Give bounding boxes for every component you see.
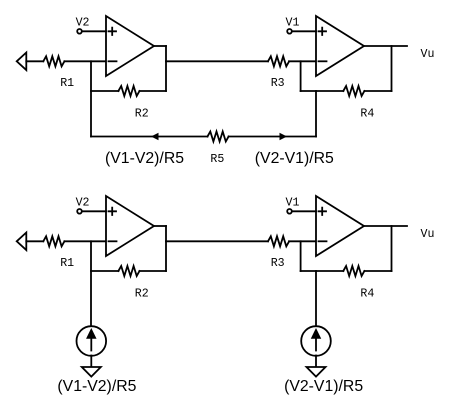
current direction arrowhead (right): [280, 133, 288, 141]
wire (R5 right segment): [229, 136, 316, 138]
wire: [26, 60, 43, 62]
op-amp U1b: [106, 196, 154, 256]
wire (R2 feedback right lead): [140, 270, 167, 272]
current source I2: [301, 326, 331, 356]
wire (I2 to arrow terminal): [315, 356, 317, 368]
terminal V2: [77, 29, 82, 34]
arrow terminal (below I2): [307, 367, 326, 377]
current source I1: [77, 326, 107, 356]
wire (left junction down to current source): [90, 241, 92, 326]
wire: [293, 210, 317, 212]
svg-text:(V1-V2)/R5: (V1-V2)/R5: [57, 378, 136, 395]
wire: [64, 240, 106, 242]
arrow terminal (below I1): [82, 367, 101, 377]
wire (left junction down to R5): [90, 61, 92, 136]
wire (U1 output to R3): [166, 240, 268, 242]
wire (R2 feedback left lead): [91, 270, 118, 272]
op-amp U1a: [106, 16, 154, 76]
wire (U2 output vertical): [391, 46, 393, 91]
op-amp U2b: [316, 196, 364, 256]
svg-text:R4: R4: [360, 108, 374, 121]
svg-text:R4: R4: [360, 288, 374, 301]
resistor R4: [343, 86, 364, 96]
svg-text:R2: R2: [135, 288, 149, 301]
wire (R4 feedback right lead): [364, 270, 391, 272]
wire (U2 inverting junction down): [300, 241, 302, 271]
svg-text:R2: R2: [135, 108, 149, 121]
current direction arrowhead (left): [151, 133, 159, 141]
resistor R5: [208, 132, 229, 142]
svg-text:R5: R5: [210, 153, 224, 166]
wire: [289, 240, 316, 242]
svg-text:V1: V1: [286, 17, 300, 30]
svg-text:(V2-V1)/R5: (V2-V1)/R5: [284, 378, 363, 395]
wire: [289, 60, 316, 62]
terminal V1: [287, 209, 292, 214]
input terminal arrow (left, bottom row): [17, 233, 27, 251]
wire (U2 output vertical): [391, 226, 393, 271]
wire (right tap down to R5): [315, 91, 317, 137]
wire: [83, 210, 107, 212]
wire (U1 output vertical): [165, 226, 167, 271]
wire (U1 output stub): [154, 225, 166, 227]
wire (right tap down to current source): [315, 271, 317, 327]
svg-text:V2: V2: [76, 17, 90, 30]
svg-text:(V1-V2)/R5: (V1-V2)/R5: [105, 150, 184, 167]
wire: [64, 60, 106, 62]
wire (U1 output vertical): [165, 46, 167, 91]
wire (U1 output stub): [154, 45, 166, 47]
svg-text:R3: R3: [271, 77, 285, 90]
wire (U2 inverting junction down): [300, 61, 302, 91]
resistor R4: [343, 266, 364, 276]
wire (I1 to arrow terminal): [90, 356, 92, 368]
op-amp U2a: [316, 16, 364, 76]
wire (R4 feedback left lead): [301, 270, 344, 272]
svg-text:Vu: Vu: [421, 48, 435, 61]
wire (R4 feedback right lead): [364, 90, 391, 92]
svg-text:V2: V2: [76, 197, 90, 210]
terminal V1: [287, 29, 292, 34]
wire (R2 feedback left lead): [91, 90, 118, 92]
resistor R1: [43, 236, 64, 246]
wire: [26, 240, 43, 242]
resistor R3: [268, 236, 289, 246]
svg-text:Vu: Vu: [421, 228, 435, 241]
svg-text:R1: R1: [60, 77, 74, 90]
wire (U1 output to R3): [166, 60, 268, 62]
svg-text:R3: R3: [271, 257, 285, 270]
input terminal arrow (left, top row): [17, 53, 27, 71]
wire (R5 left segment): [91, 136, 208, 138]
wire (R4 feedback left lead): [301, 90, 344, 92]
svg-text:(V2-V1)/R5: (V2-V1)/R5: [255, 150, 334, 167]
resistor R1: [43, 56, 64, 66]
svg-text:R1: R1: [60, 257, 74, 270]
wire (R2 feedback right lead): [140, 90, 167, 92]
resistor R3: [268, 56, 289, 66]
resistor R2: [118, 266, 139, 276]
wire (U2 output Vu): [364, 45, 407, 47]
terminal V2: [77, 209, 82, 214]
wire (U2 output Vu): [364, 225, 407, 227]
wire: [83, 30, 107, 32]
resistor R2: [118, 86, 139, 96]
svg-text:V1: V1: [286, 197, 300, 210]
wire: [293, 30, 317, 32]
